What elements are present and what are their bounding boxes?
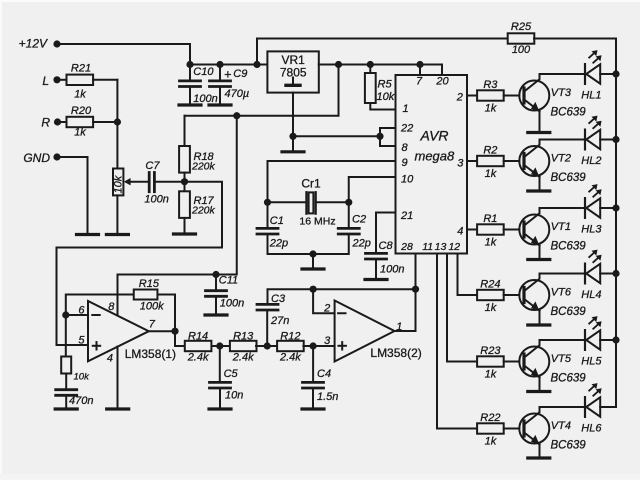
- svg-text:C7: C7: [145, 160, 160, 172]
- svg-text:VT2: VT2: [551, 153, 571, 165]
- svg-text:220k: 220k: [191, 205, 216, 217]
- svg-text:4: 4: [457, 225, 463, 237]
- svg-text:C10: C10: [193, 66, 214, 78]
- svg-text:100n: 100n: [380, 263, 404, 275]
- svg-text:BC639: BC639: [551, 241, 587, 253]
- svg-text:VT3: VT3: [551, 87, 572, 99]
- svg-text:R24: R24: [480, 279, 500, 291]
- svg-text:20: 20: [435, 76, 449, 88]
- svg-text:BC639: BC639: [551, 107, 587, 119]
- svg-text:VT5: VT5: [551, 353, 572, 365]
- svg-text:100n: 100n: [193, 93, 217, 105]
- svg-text:VT4: VT4: [551, 420, 571, 432]
- svg-text:GND: GND: [23, 151, 50, 165]
- svg-text:4: 4: [107, 353, 113, 365]
- svg-text:1k: 1k: [485, 368, 497, 380]
- svg-text:VT6: VT6: [551, 287, 572, 299]
- svg-text:16 MHz: 16 MHz: [299, 216, 335, 228]
- svg-text:1.5n: 1.5n: [317, 391, 338, 403]
- svg-text:HL1: HL1: [581, 89, 601, 101]
- svg-text:Cr1: Cr1: [301, 176, 321, 190]
- svg-text:LM358(1): LM358(1): [125, 347, 176, 361]
- svg-text:HL6: HL6: [581, 422, 602, 434]
- svg-text:C2: C2: [352, 214, 366, 226]
- svg-text:2: 2: [456, 91, 463, 103]
- svg-text:11: 11: [422, 241, 433, 253]
- svg-text:C4: C4: [317, 368, 331, 380]
- svg-text:3: 3: [457, 157, 464, 169]
- svg-text:100k: 100k: [140, 301, 164, 313]
- svg-text:220k: 220k: [191, 160, 216, 172]
- svg-text:10k: 10k: [377, 91, 395, 103]
- svg-text:100: 100: [512, 44, 531, 56]
- svg-text:10k: 10k: [112, 175, 124, 193]
- svg-text:R20: R20: [71, 105, 92, 117]
- svg-text:13: 13: [435, 241, 447, 253]
- svg-text:C1: C1: [270, 215, 284, 227]
- svg-text:HL2: HL2: [581, 155, 601, 167]
- svg-text:100n: 100n: [144, 194, 168, 206]
- svg-text:R3: R3: [483, 79, 498, 91]
- svg-text:1k: 1k: [74, 88, 86, 100]
- svg-text:9: 9: [402, 157, 408, 169]
- svg-text:2.4k: 2.4k: [279, 352, 301, 364]
- svg-text:R12: R12: [280, 331, 300, 343]
- svg-text:470µ: 470µ: [225, 88, 250, 100]
- svg-text:BC639: BC639: [551, 373, 587, 385]
- svg-text:2.4k: 2.4k: [187, 352, 209, 364]
- svg-text:HL3: HL3: [581, 223, 602, 235]
- svg-text:L: L: [42, 74, 49, 88]
- svg-text:R25: R25: [511, 21, 532, 33]
- svg-text:28: 28: [400, 241, 413, 253]
- svg-text:R13: R13: [233, 331, 254, 343]
- svg-text:1k: 1k: [485, 236, 497, 248]
- svg-text:10n: 10n: [225, 389, 243, 401]
- svg-text:R5: R5: [378, 78, 393, 90]
- svg-text:BC639: BC639: [551, 172, 587, 184]
- svg-text:R: R: [41, 116, 50, 130]
- svg-text:HL4: HL4: [581, 289, 601, 301]
- svg-text:R2: R2: [483, 145, 497, 157]
- svg-text:7805: 7805: [280, 66, 307, 80]
- svg-text:8: 8: [108, 301, 115, 313]
- svg-text:1: 1: [403, 103, 409, 115]
- svg-text:1: 1: [396, 321, 402, 333]
- svg-text:6: 6: [78, 304, 85, 316]
- svg-text:1k: 1k: [485, 302, 497, 314]
- svg-text:2: 2: [323, 303, 330, 315]
- svg-text:27n: 27n: [270, 315, 289, 327]
- svg-text:R14: R14: [188, 331, 208, 343]
- svg-text:R23: R23: [480, 345, 501, 357]
- svg-text:R1: R1: [483, 213, 497, 225]
- svg-text:8: 8: [402, 142, 409, 154]
- svg-text:3: 3: [324, 335, 331, 347]
- svg-text:5: 5: [78, 335, 85, 347]
- svg-text:C9: C9: [233, 68, 247, 80]
- svg-text:22p: 22p: [352, 237, 371, 249]
- svg-text:R15: R15: [139, 278, 160, 290]
- svg-text:1k: 1k: [485, 102, 497, 114]
- svg-text:10k: 10k: [74, 371, 91, 382]
- svg-text:1k: 1k: [485, 168, 497, 180]
- svg-text:7: 7: [149, 318, 156, 330]
- svg-text:C5: C5: [224, 368, 239, 380]
- svg-text:21: 21: [400, 210, 413, 222]
- svg-text:C8: C8: [379, 240, 394, 252]
- svg-text:VT1: VT1: [551, 221, 571, 233]
- svg-text:AVR: AVR: [420, 128, 449, 144]
- svg-text:+: +: [224, 68, 231, 82]
- svg-text:BC639: BC639: [551, 306, 587, 318]
- svg-text:LM358(2): LM358(2): [370, 346, 421, 360]
- svg-text:2.4k: 2.4k: [232, 352, 254, 364]
- svg-text:7: 7: [416, 76, 423, 88]
- svg-text:100n: 100n: [220, 298, 244, 310]
- svg-text:+12V: +12V: [19, 37, 48, 51]
- svg-text:470n: 470n: [69, 395, 93, 407]
- svg-text:BC639: BC639: [551, 440, 587, 452]
- svg-text:R21: R21: [71, 63, 91, 75]
- svg-text:22: 22: [400, 122, 413, 134]
- svg-text:C11: C11: [219, 274, 238, 286]
- svg-text:R22: R22: [480, 412, 500, 424]
- svg-text:1k: 1k: [485, 435, 497, 447]
- svg-text:10: 10: [401, 173, 414, 185]
- svg-text:mega8: mega8: [415, 149, 456, 164]
- svg-text:HL5: HL5: [581, 355, 602, 367]
- svg-text:12: 12: [448, 241, 460, 253]
- svg-text:C3: C3: [271, 293, 286, 305]
- svg-text:22p: 22p: [269, 237, 288, 249]
- svg-text:1k: 1k: [74, 126, 86, 138]
